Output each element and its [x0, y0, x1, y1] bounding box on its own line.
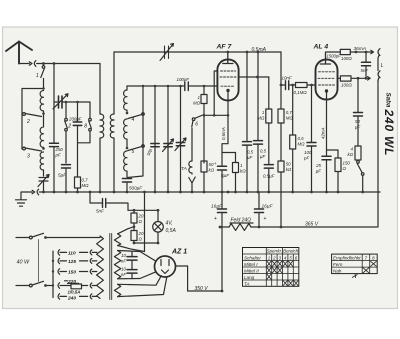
wire heater bottom y243 — [134, 242, 158, 244]
ground bus jack — [26, 189, 39, 195]
junction dots grid wire — [142, 85, 145, 88]
wire x376 output line — [377, 81, 379, 227]
wire x143 switch contact line — [128, 86, 144, 178]
table2 X marks — [370, 261, 376, 267]
capacitor 10nF coupling — [281, 84, 296, 86]
capacitor 50µF screen — [357, 78, 359, 146]
wire x75 with resistor 0.7MΩ — [77, 188, 79, 192]
wire x168 — [167, 86, 169, 192]
switch mains bottom — [29, 284, 32, 287]
antenna jack plug — [29, 61, 36, 67]
svg-text:0,5A: 0,5A — [166, 228, 177, 234]
coil TA input — [189, 161, 192, 174]
junction dot 350V — [221, 290, 224, 293]
capacitor 16µF first filter — [221, 192, 223, 227]
selector contact 150 — [58, 269, 88, 275]
coil L2 — [40, 114, 43, 150]
wire x66 — [65, 102, 67, 118]
svg-text:40 W: 40 W — [17, 260, 30, 266]
svg-text:2: 2 — [67, 124, 71, 130]
resistor Feld 24Ω field coil — [229, 224, 251, 231]
tube AL4 top cap — [320, 52, 330, 64]
svg-text:kΩ: kΩ — [347, 152, 353, 157]
svg-text:MΩ: MΩ — [298, 142, 306, 147]
svg-text:220: 220 — [67, 279, 76, 285]
wire antenna lead-in — [19, 63, 29, 65]
capacitor 10nF lower — [131, 274, 133, 279]
resistor 100Ω screen — [340, 76, 351, 81]
tube AZ1 envelope — [155, 256, 176, 277]
wire heater top y210 — [128, 209, 158, 211]
junction dots coil chain — [42, 87, 45, 90]
svg-text:5µF: 5µF — [58, 173, 67, 178]
svg-text:AF 7: AF 7 — [216, 44, 233, 51]
svg-text:Fern: Fern — [333, 262, 343, 267]
svg-text:µF: µF — [355, 125, 361, 130]
wire anode AF7 — [238, 76, 268, 78]
wire left branch box — [22, 89, 44, 150]
tube AF7 top cap — [223, 52, 233, 64]
svg-text:100Ω: 100Ω — [341, 83, 352, 88]
switch 5 — [128, 147, 142, 151]
wire grid y86 — [127, 85, 218, 87]
wire x144.5 heater feed — [144, 192, 146, 252]
capacitor 5nF — [365, 52, 367, 78]
svg-text:kΩ: kΩ — [240, 169, 246, 174]
svg-text:Nah: Nah — [333, 269, 342, 274]
svg-text:0,6mA: 0,6mA — [221, 127, 226, 140]
junction dots heater — [133, 209, 136, 212]
switch 4 — [128, 115, 142, 119]
switch mains top — [29, 236, 32, 239]
svg-text:kΩ: kΩ — [209, 168, 215, 173]
wire x155 — [154, 86, 156, 192]
coil chain x127 top corner — [126, 86, 128, 90]
svg-text:4V,: 4V, — [166, 221, 173, 227]
coil L3 — [40, 152, 43, 176]
wire 350V to B+ — [221, 227, 223, 291]
table switch matrix grid — [243, 248, 299, 287]
coil L1 — [40, 91, 43, 113]
svg-text:MΩ: MΩ — [82, 183, 90, 188]
wire x258 — [257, 52, 259, 140]
svg-text:+: + — [214, 161, 217, 166]
svg-text:10: 10 — [121, 253, 126, 258]
transformer HV winding — [114, 251, 120, 279]
svg-text:TA: TA — [181, 166, 187, 172]
svg-text:50: 50 — [286, 162, 291, 167]
svg-text:+: + — [264, 216, 267, 222]
svg-text:1500pF: 1500pF — [327, 54, 342, 59]
svg-text:250: 250 — [55, 147, 64, 152]
wire x247 screen — [246, 52, 248, 141]
wire to 50kΩ — [203, 172, 205, 192]
wire mains top — [16, 237, 29, 239]
svg-text:2: 2 — [272, 255, 276, 260]
svg-text:20: 20 — [138, 214, 144, 219]
svg-text:4: 4 — [132, 117, 135, 123]
capacitor 16µF second filter — [258, 192, 260, 227]
capacitor 10nF upper — [131, 252, 133, 269]
wire AL4 top rail — [327, 51, 374, 53]
resistor 4kΩ — [355, 146, 361, 160]
switch 1 — [42, 66, 45, 69]
transformer primary zigzag — [97, 236, 104, 298]
junction dots ground bus — [42, 191, 45, 194]
svg-text:25: 25 — [315, 163, 321, 168]
svg-text:10nF: 10nF — [282, 76, 292, 81]
resistor 1MΩ anode load — [268, 77, 270, 109]
transformer heater winding 4V — [114, 234, 120, 246]
svg-text:42mA: 42mA — [321, 127, 326, 139]
junction dots anode and coupling — [256, 76, 259, 79]
svg-text:0,5: 0,5 — [298, 136, 305, 141]
ground symbol — [16, 192, 27, 206]
svg-text:0,1MΩ: 0,1MΩ — [294, 90, 308, 95]
transformer rectifier heater winding — [114, 284, 120, 296]
svg-text:200pF: 200pF — [68, 117, 82, 122]
svg-text:5nF: 5nF — [361, 68, 369, 73]
svg-text:0,5: 0,5 — [260, 149, 267, 154]
capacitor 5µF — [62, 165, 71, 168]
resistor 0.7MΩ screen feed — [278, 109, 284, 123]
svg-text:MΩ: MΩ — [193, 101, 201, 106]
svg-text:Sperrkr.: Sperrkr. — [267, 249, 282, 254]
transformer tap arcs — [90, 250, 97, 255]
tube AF7 envelope — [217, 60, 238, 101]
capacitor 0.5µF x247 — [243, 142, 252, 146]
coil L6 — [124, 151, 127, 177]
svg-text:Lang: Lang — [244, 275, 255, 280]
trimmer capacitor antenna — [38, 175, 49, 193]
svg-text:240 WL: 240 WL — [382, 109, 396, 157]
svg-text:0,7: 0,7 — [82, 178, 89, 183]
jack TA — [189, 177, 195, 192]
capacitor 200pF — [77, 102, 79, 122]
antenna coil chain node — [43, 64, 45, 66]
resistor 20Ω upper — [133, 210, 135, 213]
resistor 150Ω cathode — [327, 150, 339, 192]
svg-text:pF: pF — [303, 156, 309, 161]
capacitor 0.5µF x268.8 — [268, 123, 270, 192]
svg-text:150: 150 — [68, 269, 76, 275]
tube AL4 cathode — [319, 84, 335, 86]
svg-text:50: 50 — [355, 119, 360, 124]
wire x100 IF transformer primary line — [99, 64, 101, 193]
svg-text:0,5: 0,5 — [247, 150, 254, 155]
svg-text:1/0,5A: 1/0,5A — [68, 290, 81, 295]
wire AL4 screen y84 — [337, 77, 370, 80]
svg-text:350 V: 350 V — [195, 286, 209, 292]
resistor 50kΩ — [201, 161, 207, 172]
switch gang link — [38, 240, 40, 282]
capacitor 100pF x311.5 — [311, 85, 313, 192]
switch 3 — [23, 147, 26, 150]
svg-text:5: 5 — [132, 149, 135, 155]
ground bus wire — [39, 191, 380, 193]
svg-text:Mittel II: Mittel II — [244, 268, 260, 273]
svg-text:µF: µF — [247, 155, 253, 160]
resistor 0.1MΩ grid stopper — [296, 83, 308, 88]
svg-text:µF: µF — [316, 169, 322, 174]
tube AL4 grids — [319, 71, 335, 73]
capacitor 250pF — [50, 143, 59, 146]
switch 2 — [23, 113, 26, 116]
svg-text:150: 150 — [343, 161, 351, 166]
wire x54 — [53, 64, 55, 143]
svg-text:500µF: 500µF — [129, 186, 143, 191]
resistor 50kΩ B+ dropper — [280, 123, 282, 227]
wire x180.5 — [180, 86, 182, 192]
svg-text:Feld 24Ω: Feld 24Ω — [231, 218, 252, 224]
wire x281 from top rail corner — [280, 52, 282, 109]
svg-text:100pF: 100pF — [177, 77, 190, 82]
resistor 0.5MΩ grid leak AL4 — [292, 85, 294, 192]
jack loudspeaker 1 — [371, 49, 380, 71]
switch tone — [357, 161, 360, 164]
capacitor 0.5µF x258 — [254, 141, 263, 145]
wire mains bottom — [16, 285, 29, 287]
coil L4 — [124, 90, 127, 113]
svg-text:AL 4: AL 4 — [313, 44, 329, 51]
svg-text:pF: pF — [55, 153, 61, 158]
svg-text:nF: nF — [121, 272, 126, 277]
svg-text:nF: nF — [121, 259, 126, 264]
capacitor 8µF cathode — [222, 153, 236, 193]
svg-text:365 V: 365 V — [305, 222, 319, 228]
junction dots mains — [44, 236, 47, 239]
junction dots antenna wire — [42, 62, 45, 65]
trimmer capacitor x161 — [164, 144, 172, 147]
svg-text:20: 20 — [138, 231, 144, 236]
svg-text:MΩ: MΩ — [257, 116, 265, 121]
pointer mark below table2 — [352, 274, 358, 279]
capacitor 5nF heater branch — [90, 192, 128, 210]
svg-text:TA: TA — [244, 281, 250, 286]
svg-text:+: + — [214, 216, 217, 222]
resistor 1kΩ cathode — [235, 153, 237, 193]
table1 X marks — [267, 261, 293, 267]
svg-text:L: L — [381, 63, 384, 69]
selector contact 125 — [58, 258, 88, 264]
svg-text:3: 3 — [27, 154, 30, 160]
svg-text:Bereich: Bereich — [283, 249, 298, 254]
svg-text:0,5µF: 0,5µF — [263, 174, 275, 179]
svg-text:110: 110 — [68, 250, 76, 256]
svg-text:Mittel I: Mittel I — [244, 262, 258, 267]
voltage selector common line — [52, 251, 54, 298]
fuse 1/0.5A — [71, 284, 82, 289]
jack loudspeaker 2 — [378, 71, 380, 81]
IF transformer primary winding — [100, 114, 104, 138]
svg-text:µF: µF — [260, 154, 266, 159]
table sensitivity grid — [332, 254, 378, 274]
wire x114 IF transformer secondary line — [113, 52, 115, 192]
wire antenna to RF coils — [37, 63, 100, 65]
switch 7 — [65, 118, 68, 121]
trimmer capacitor x171 — [176, 143, 184, 146]
svg-text:5nF: 5nF — [96, 209, 105, 214]
junction dots top rails — [226, 51, 229, 54]
tube AL4 envelope — [316, 60, 338, 100]
svg-text:kΩ: kΩ — [286, 167, 292, 172]
resistor 20Ω lower — [133, 223, 135, 231]
svg-text:125: 125 — [68, 259, 76, 265]
tube AF7 grids — [221, 70, 236, 72]
svg-text:Schalter: Schalter — [244, 255, 261, 260]
wire top grid rail W1 — [114, 51, 281, 53]
capacitor 50pF — [151, 144, 159, 147]
variable capacitor tuning — [54, 101, 58, 103]
svg-text:8: 8 — [84, 124, 87, 130]
resistor 100Ω top — [340, 49, 350, 54]
svg-text:100Ω: 100Ω — [341, 56, 352, 61]
wire B+ rail 365V — [220, 226, 377, 228]
svg-text:AZ 1: AZ 1 — [171, 249, 187, 256]
switch 8 — [89, 118, 92, 121]
tube AF7 cathode — [221, 85, 235, 87]
svg-text:16µF: 16µF — [262, 204, 274, 210]
svg-text:6: 6 — [195, 122, 198, 128]
selector contact 220 with fuse — [58, 281, 88, 289]
junction dots B+ rail — [219, 226, 222, 229]
tube AZ1 anodes — [161, 260, 169, 266]
wire cathode link y115 — [204, 71, 228, 115]
coil L5 — [124, 119, 127, 147]
capacitor 500µF — [123, 179, 132, 183]
tube AZ1 filament — [162, 270, 169, 274]
svg-text:2: 2 — [26, 119, 30, 125]
svg-text:0,7: 0,7 — [286, 110, 293, 115]
IF transformer secondary winding — [110, 114, 114, 138]
svg-text:10: 10 — [121, 267, 126, 272]
wire AZ1 output 350V — [176, 266, 223, 291]
lamp dial 4V 0.5A — [157, 210, 159, 243]
selector contact 110 — [58, 250, 88, 256]
trimmer capacitor in top rail — [160, 44, 174, 61]
svg-text:16µF: 16µF — [211, 204, 223, 210]
svg-text:MΩ: MΩ — [286, 116, 294, 121]
antenna — [6, 42, 32, 64]
selector contact 240 — [58, 294, 88, 300]
svg-text:8µF: 8µF — [221, 173, 230, 178]
svg-text:Saba: Saba — [384, 93, 391, 108]
resistor 1MΩ grid leak — [203, 86, 205, 163]
svg-text:1: 1 — [36, 73, 39, 79]
svg-text:Empfindlichkt: Empfindlichkt — [333, 256, 361, 261]
svg-text:240: 240 — [67, 295, 76, 301]
capacitor 25µF cathode — [322, 156, 331, 160]
transformer core — [110, 234, 112, 300]
switch 6 — [195, 115, 204, 119]
capacitor 100pF series — [185, 82, 189, 91]
svg-text:100: 100 — [304, 150, 312, 155]
